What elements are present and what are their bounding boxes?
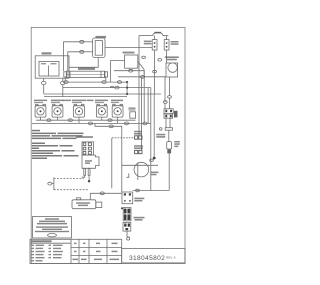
wire S1 down <box>153 50 162 94</box>
vertical wire x141.5 <box>141 77 143 151</box>
wire bus y96.5 <box>44 96 127 98</box>
wire S2 down <box>166 50 168 63</box>
timer T1 <box>35 52 69 78</box>
wires lamp fixture down <box>163 77 171 109</box>
thermal fuse body <box>167 141 180 191</box>
oven element connector <box>134 131 142 139</box>
hidden bake connector <box>134 145 143 154</box>
wires TB2 to thermal fuse <box>166 118 170 128</box>
dashed oven connector wire <box>112 137 135 139</box>
color code table <box>30 239 122 263</box>
vertical wire x150.8 <box>150 88 152 191</box>
surface unit switch 5 <box>111 100 123 124</box>
wire bus y82 <box>63 81 128 94</box>
door switch <box>121 192 144 209</box>
bus below switches y120.2 <box>36 119 136 122</box>
ballast terminal 2 <box>68 50 93 71</box>
vertical wire x139 <box>138 36 140 136</box>
terminal block TB1 <box>76 136 99 182</box>
title block <box>122 248 185 263</box>
ballast <box>93 36 106 58</box>
vertical wire x121.8 <box>95 123 122 192</box>
surface unit switch 1 <box>34 100 47 121</box>
oven lamp switch S2 <box>164 40 178 50</box>
border frame <box>31 27 185 263</box>
caution label box <box>33 217 72 239</box>
surface receptacle block <box>123 208 144 221</box>
terminal block TB2 <box>164 109 178 118</box>
ballast terminal 1 <box>64 40 93 71</box>
small box right of switches <box>129 108 136 119</box>
vertical wire x148.1 <box>147 88 149 124</box>
fluorescent lamp fixture <box>165 56 179 77</box>
surface unit switch 4 <box>95 100 108 121</box>
wire y193.3 <box>90 192 122 195</box>
surface unit switch 3 <box>72 100 86 124</box>
bus below switches y123.4 <box>32 122 151 125</box>
wire bus y94 <box>44 93 161 95</box>
vertical wire x155.1 <box>153 94 156 159</box>
svg-text:REV. A: REV. A <box>166 256 177 260</box>
vertical wire x111.8 <box>111 138 113 189</box>
timer terminal right <box>61 78 66 96</box>
svg-text:318045802: 318045802 <box>129 255 165 262</box>
vertical wire x144.2 <box>143 71 145 124</box>
surface unit switch 2 <box>51 100 64 121</box>
thermal fuse cap <box>156 128 172 142</box>
ground wire and lug <box>127 231 130 240</box>
fluorescent lamp switch S1 <box>144 40 157 50</box>
wire ballast to lamp switch <box>105 46 152 48</box>
bracket harness <box>48 177 89 190</box>
fluorescent lamp tube <box>64 68 108 81</box>
wire y70.7 <box>114 69 144 77</box>
wire y76.8 <box>118 75 166 78</box>
wire timer to ballast <box>69 58 98 68</box>
L1 feed wire <box>139 32 168 40</box>
table grid <box>70 239 72 263</box>
oven lamp <box>122 159 159 180</box>
timer terminal left <box>41 78 46 94</box>
switch row extra labels <box>64 100 72 102</box>
door lock motor <box>72 193 102 208</box>
thermostat <box>111 52 146 83</box>
power plug <box>123 223 131 232</box>
note text block <box>32 130 84 159</box>
wire bus y87.6 <box>63 86 151 89</box>
wire y190.5 <box>133 189 170 192</box>
